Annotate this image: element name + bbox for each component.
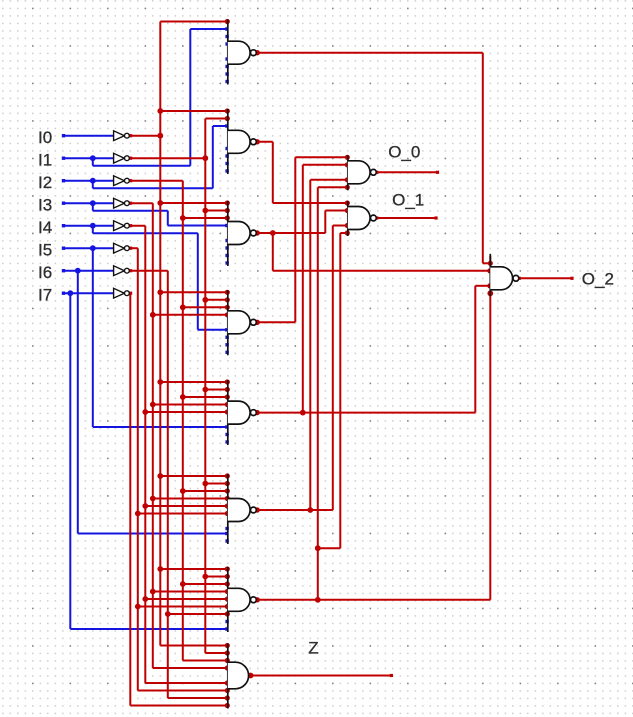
- wire U7 output: [256, 599, 490, 601]
- nand gate O_2: [489, 254, 491, 296]
- junction trunk at U5 input4: [150, 402, 156, 408]
- inverter NOT-I2: [114, 176, 125, 186]
- wire feed U8 input7: [138, 690, 228, 692]
- wire feed U6 input4: [153, 498, 228, 500]
- wire I3 branch to gate U3: [92, 203, 94, 211]
- nand gate U2: [227, 109, 229, 174]
- junction U7 riser col42 branch: [315, 545, 321, 551]
- wire input I2 horizontal: [63, 180, 114, 182]
- junction trunk at U2 input1: [157, 108, 163, 114]
- wire input I4 horizontal: [63, 225, 114, 227]
- junction U1 wire at O_2: [488, 261, 493, 266]
- wire NOT-I6 trunk: [167, 271, 169, 698]
- junction U6 output at col41: [307, 507, 313, 513]
- wire feed U8 input1: [160, 645, 228, 647]
- junction trunk at U4 input4: [150, 312, 156, 318]
- wire U5 riser col40 to O_0 input2: [302, 165, 304, 413]
- junction trunk at U6 input1: [157, 473, 163, 479]
- wire O_1 output: [376, 217, 438, 219]
- wire feed U4 input3: [183, 306, 228, 308]
- wire NOT-I4 inverter output: [129, 225, 145, 227]
- junction trunk at U4 input1: [157, 289, 163, 295]
- wire feed U8 input4: [153, 667, 228, 669]
- junction O_2 input line bottom: [487, 290, 493, 296]
- wire feed U6 input3: [183, 490, 228, 492]
- wire NOT-I1 trunk: [204, 119, 206, 654]
- wire feed U6 input1: [160, 475, 228, 477]
- junction I7 branch: [67, 290, 73, 296]
- wire U4 output to O_0 input1: [256, 321, 295, 323]
- wire I6 branch to gate U6: [77, 271, 79, 534]
- wire feed U8 input9: [130, 705, 228, 707]
- junction trunk at U7 input3: [180, 581, 186, 587]
- nand gate U6: [227, 474, 229, 544]
- wire NOT-I7 trunk: [129, 293, 131, 705]
- wire feed U7 input1: [160, 568, 228, 570]
- floating input stubs U6: [225, 527, 228, 530]
- floating input stubs U3: [225, 239, 228, 242]
- wire U2 output to O_1 input1: [256, 141, 273, 143]
- wire feed U5 input3: [183, 396, 228, 398]
- inverter NOT-I1: [114, 153, 125, 163]
- junction I2 branch: [90, 178, 96, 184]
- wire NOT-I2 inverter output: [129, 180, 182, 182]
- wire U7 riser col42 to O_0 input5: [317, 187, 319, 600]
- junction trunk at U7 input1: [157, 566, 163, 572]
- junction I1 branch: [90, 155, 96, 161]
- wire feed U3 input3: [183, 217, 228, 219]
- junction trunk at U5 input2: [202, 387, 208, 393]
- wire U3 branch to O_2 input3: [272, 233, 274, 271]
- wire feed U4 input2: [205, 299, 228, 301]
- inverter NOT-I3: [114, 198, 125, 208]
- junction NOT-I0 source: [157, 133, 163, 139]
- wire NOT-I1 inverter output: [129, 157, 205, 159]
- wire Z output: [249, 675, 393, 677]
- wire feed U6 input6: [138, 513, 228, 515]
- junction trunk at U5 input3: [180, 394, 186, 400]
- junction trunk at U6 input3: [180, 488, 186, 494]
- junction trunk at U6 input4: [150, 496, 156, 502]
- wire U7 branch col45 to O_1 input5: [318, 547, 341, 549]
- inverter NOT-I5: [114, 243, 125, 253]
- wire feed U8 input2: [205, 652, 228, 654]
- wire feed U7 input6: [138, 606, 228, 608]
- wire NOT-I3 inverter output: [129, 202, 152, 204]
- wire U5 output: [256, 412, 475, 414]
- nand gate U8 (Z): [227, 644, 229, 709]
- wire NOT-I5 trunk: [137, 248, 139, 690]
- junction trunk at U5 input1: [157, 379, 163, 385]
- junction U7 output at col42: [315, 597, 321, 603]
- wire feed U3 input2: [205, 210, 228, 212]
- nand gate O_1: [347, 201, 349, 236]
- floating input stubs U4: [225, 336, 228, 339]
- junction trunk at U7 input7: [165, 611, 171, 617]
- wire feed U6 input5: [145, 505, 228, 507]
- svg-text:I6: I6: [38, 263, 52, 282]
- floating input stubs U1: [225, 35, 228, 38]
- wire feed U7 input2: [205, 576, 228, 578]
- junction trunk at U4 input3: [180, 304, 186, 310]
- wire NOT-I2 trunk: [182, 181, 184, 661]
- junction trunk at U3 input2: [202, 208, 208, 214]
- wire feed U4 input4: [153, 314, 228, 316]
- wire feed U5 input4: [153, 404, 228, 406]
- wire feed U5 input1: [160, 381, 228, 383]
- junction I5 branch: [90, 245, 96, 251]
- junction trunk at U3 input1: [157, 200, 163, 206]
- wire feed U6 input2: [205, 483, 228, 485]
- junction trunk at U4 input2: [202, 297, 208, 303]
- wire O_2 output: [518, 277, 573, 279]
- wire input I0 horizontal: [63, 135, 114, 137]
- svg-text:I0: I0: [38, 128, 52, 147]
- svg-text:O_1: O_1: [392, 190, 424, 209]
- junction trunk at U6 input5: [142, 503, 148, 509]
- nand gate O_0: [347, 155, 349, 190]
- wire input I7 horizontal: [63, 292, 114, 294]
- junction trunk at U7 input6: [135, 604, 141, 610]
- junction trunk at U6 input2: [202, 481, 208, 487]
- svg-text:I5: I5: [38, 240, 52, 259]
- junction trunk at U7 input4: [150, 589, 156, 595]
- wire U6 riser col41 to O_0 input4: [309, 180, 311, 510]
- wire feed U4 input1: [160, 291, 228, 293]
- wire feed U8 input8: [168, 697, 228, 699]
- junction NOT-I1 source: [202, 155, 208, 161]
- wire feed U8 input3: [183, 660, 228, 662]
- wire NOT-I0 inverter output: [129, 135, 160, 137]
- wire U7 riser col65 to O_2 bottom input: [489, 293, 491, 600]
- junction trunk at U6 input6: [135, 511, 141, 517]
- nand gate U1: [227, 20, 229, 85]
- wire I1 branch to gate U1 (direct input): [92, 158, 94, 166]
- wire NOT-I3 trunk: [152, 203, 154, 668]
- nand gate U5: [227, 380, 229, 445]
- wire feed U7 input5: [145, 598, 228, 600]
- wire feed U5 input5: [145, 411, 228, 413]
- inverter NOT-I6: [114, 266, 125, 276]
- wire U6 output: [256, 509, 333, 511]
- wire input I1 horizontal: [63, 157, 114, 159]
- nand gate U7: [227, 567, 229, 632]
- junction trunk at U7 input5: [142, 596, 148, 602]
- floating input stubs U5: [225, 433, 228, 436]
- junction I4 branch: [90, 223, 96, 229]
- junction trunk at U5 input5: [142, 409, 148, 415]
- wire feed U5 input2: [205, 389, 228, 391]
- svg-text:I1: I1: [38, 150, 52, 169]
- junction trunk at U3 input3: [180, 215, 186, 221]
- wire input I5 horizontal: [63, 247, 114, 249]
- wire U1 output to O_2: [256, 52, 483, 54]
- nand gate U4: [227, 290, 229, 355]
- wire feed U7 input3: [183, 583, 228, 585]
- svg-text:O_2: O_2: [582, 270, 614, 289]
- junction I3 branch: [90, 200, 96, 206]
- wire NOT-I7 inverter output: [128, 292, 131, 294]
- inverter NOT-I0: [114, 131, 125, 141]
- svg-text:I4: I4: [38, 218, 52, 237]
- wire feed U8 input6: [145, 682, 228, 684]
- wire feed U7 input7: [168, 613, 228, 615]
- inverter NOT-I7: [114, 288, 125, 298]
- svg-text:O_0: O_0: [388, 143, 420, 162]
- floating input stubs U7: [225, 620, 228, 623]
- wire O_0 output: [376, 171, 439, 173]
- nand gate U3: [227, 201, 229, 266]
- wire input I3 horizontal: [63, 202, 114, 204]
- svg-text:I3: I3: [38, 195, 52, 214]
- wire feed U7 input4: [153, 591, 228, 593]
- wire U3 output to O_1 input2: [256, 232, 325, 234]
- wire I2 branch to gate U2: [92, 181, 94, 189]
- inverter NOT-I4: [114, 221, 125, 231]
- svg-text:I2: I2: [38, 173, 52, 192]
- wire NOT-I6 inverter output: [129, 270, 167, 272]
- wire feed U3 input1: [160, 202, 228, 204]
- wire NOT-I0 trunk: [159, 22, 161, 646]
- junction I6 branch: [75, 268, 81, 274]
- wire I7 branch to gate U7: [69, 293, 71, 629]
- wire U5 riser col63 to O_2 input5: [474, 286, 476, 413]
- wire feed U2 input1: [160, 110, 228, 112]
- wire feed U1 input1: [160, 21, 228, 23]
- wire input I6 horizontal: [63, 270, 114, 272]
- svg-text:I7: I7: [38, 285, 52, 304]
- junction U3 output branch: [270, 230, 276, 236]
- wire I4 branch to gate U4: [92, 226, 94, 234]
- svg-text:Z: Z: [308, 639, 318, 658]
- junction trunk at U7 input2: [202, 574, 208, 580]
- floating input stubs U2: [225, 147, 228, 150]
- junction U5 output at col40: [300, 410, 306, 416]
- wire I5 branch to gate U5: [92, 248, 94, 427]
- wire NOT-I5 inverter output: [129, 247, 137, 249]
- wire feed U2 input2: [205, 118, 228, 120]
- wire NOT-I4 trunk: [144, 226, 146, 683]
- wire U6 riser col44 to O_1 input4: [332, 226, 334, 511]
